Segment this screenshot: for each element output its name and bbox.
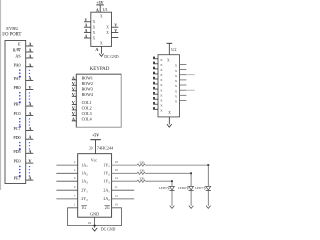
pin PE7 of EVBU I/O port with wire stub and net flag bbox=[26, 179, 34, 181]
keypad pin COL4 stub with net flag bbox=[72, 120, 77, 122]
svg-text:X: X bbox=[160, 98, 163, 102]
svg-text:KEYPAD: KEYPAD bbox=[90, 67, 110, 72]
LED LED6 bbox=[189, 186, 194, 190]
continuation dashes on EVBU stub column bbox=[29, 92, 30, 93]
svg-text:COL1: COL1 bbox=[82, 100, 92, 105]
continuation dashes on EVBU stub column bbox=[29, 142, 30, 143]
svg-text:330: 330 bbox=[139, 169, 144, 173]
U2 right pin stub with pin number X bbox=[180, 79, 187, 81]
pin PD5 of EVBU I/O port with wire stub and net flag bbox=[26, 152, 34, 154]
svg-text:V: V bbox=[85, 18, 88, 22]
wire 74HC244 left input stub bbox=[56, 189, 77, 191]
wire 74HC244 output to resistor R3 bbox=[112, 180, 138, 182]
svg-text:U1: U1 bbox=[103, 7, 108, 12]
junction dot at LED7 column bbox=[207, 164, 209, 166]
U2 left pin stub with net flag and pin number X bbox=[153, 83, 158, 85]
svg-text:PA0: PA0 bbox=[14, 62, 21, 67]
svg-text:AS: AS bbox=[15, 54, 21, 59]
svg-text:74HC244: 74HC244 bbox=[97, 146, 114, 151]
svg-text:1Y3: 1Y3 bbox=[103, 179, 110, 185]
svg-text:X: X bbox=[160, 88, 163, 92]
svg-text:A: A bbox=[29, 126, 32, 131]
svg-text:X: X bbox=[160, 68, 163, 72]
svg-text:2A2: 2A2 bbox=[103, 196, 110, 202]
svg-text:A: A bbox=[29, 135, 32, 140]
svg-text:A: A bbox=[29, 62, 32, 67]
svg-text:DC GND: DC GND bbox=[101, 228, 116, 232]
pin PA0 of EVBU I/O port with wire stub and net flag bbox=[26, 66, 34, 68]
U1 left pin stub with net flag and pin number X bbox=[84, 32, 91, 34]
svg-text:V: V bbox=[29, 85, 32, 90]
U1 third right pin stub bbox=[112, 36, 119, 38]
svg-text:X: X bbox=[175, 100, 178, 104]
svg-text:330: 330 bbox=[139, 177, 144, 181]
svg-text:1A1: 1A1 bbox=[81, 162, 88, 168]
svg-text:V: V bbox=[72, 100, 75, 105]
U2 left pin stub with net flag and pin number X bbox=[153, 63, 158, 65]
svg-text:X: X bbox=[93, 31, 96, 35]
pin PB0 of EVBU I/O port with wire stub and net flag bbox=[26, 88, 34, 90]
svg-text:1A2: 1A2 bbox=[81, 171, 88, 177]
svg-text:X: X bbox=[175, 79, 178, 83]
wire extension from U2 right pin bbox=[186, 74, 194, 76]
junction dot at LED6 column bbox=[190, 172, 192, 174]
IC U1 body bbox=[91, 12, 112, 46]
pin PB7 of EVBU I/O port with wire stub and net flag bbox=[26, 105, 34, 107]
pin PA7 of EVBU I/O port with wire stub and net flag bbox=[26, 79, 34, 81]
svg-text:A: A bbox=[85, 29, 88, 33]
svg-text:E: E bbox=[18, 42, 21, 47]
svg-text:+5V: +5V bbox=[96, 0, 103, 5]
svg-text:X: X bbox=[160, 58, 163, 62]
svg-text:X: X bbox=[160, 78, 163, 82]
svg-text:X: X bbox=[175, 84, 178, 88]
svg-text:V: V bbox=[114, 29, 117, 33]
svg-text:X: X bbox=[160, 109, 163, 113]
wire 74HC244 left input stub bbox=[56, 180, 77, 182]
svg-text:Vcc: Vcc bbox=[91, 157, 98, 162]
ground arrow under LED6 bbox=[189, 206, 194, 209]
svg-text:2: 2 bbox=[74, 160, 76, 164]
U2 left pin stub with net flag and pin number X bbox=[153, 108, 158, 110]
svg-text:V: V bbox=[114, 24, 117, 28]
pin R/W of EVBU I/O port with wire stub and net flag bbox=[26, 51, 34, 53]
svg-text:1: 1 bbox=[74, 203, 76, 207]
svg-text:6: 6 bbox=[74, 176, 76, 180]
U2 left pin stub with net flag and pin number X bbox=[153, 103, 158, 105]
buffer U3 74HC244 body bbox=[78, 154, 112, 218]
svg-text:A: A bbox=[29, 48, 32, 53]
keypad pin ROW1 stub with net flag bbox=[72, 79, 77, 81]
wire 74HC244 GND pin 10 down bbox=[94, 217, 96, 228]
svg-text:I/O PORT: I/O PORT bbox=[2, 33, 21, 38]
keypad pin ROW3 stub with net flag bbox=[72, 90, 77, 92]
pin E of EVBU I/O port with wire stub and net flag bbox=[26, 45, 34, 47]
DC GND power symbol under 74HC244 bbox=[92, 228, 97, 231]
wire +5V to 74HC244 Vcc pin 20 bbox=[94, 140, 96, 154]
svg-text:X: X bbox=[160, 83, 163, 87]
junction dot at ground node bbox=[94, 225, 96, 227]
svg-text:X: X bbox=[168, 111, 171, 115]
connector J1 EVBU I/O PORT body bbox=[5, 41, 26, 184]
wire U2 bottom pin to ground bbox=[168, 117, 170, 125]
svg-text:X: X bbox=[160, 104, 163, 108]
wire LED6 cathode to ground bbox=[190, 191, 192, 206]
svg-text:LED7: LED7 bbox=[195, 186, 203, 190]
svg-text:X: X bbox=[106, 31, 109, 35]
keypad pin ROW2 stub with net flag bbox=[72, 84, 77, 86]
continuation dots inside EVBU connector bbox=[19, 142, 21, 144]
wire U1 bottom pin to DC GND bbox=[100, 46, 102, 53]
ground arrow under LED5 bbox=[170, 206, 175, 209]
svg-text:2G: 2G bbox=[105, 205, 110, 210]
svg-text:14: 14 bbox=[115, 176, 119, 180]
svg-text:9: 9 bbox=[74, 185, 76, 189]
page border line bbox=[0, 0, 2, 190]
wire 74HC244 left input stub bbox=[56, 172, 77, 174]
svg-text:A: A bbox=[95, 47, 98, 52]
svg-text:A: A bbox=[96, 7, 99, 12]
connector U2 body bbox=[158, 55, 180, 117]
svg-text:V: V bbox=[72, 111, 75, 116]
svg-text:1Y1: 1Y1 bbox=[103, 162, 110, 168]
svg-text:2Y2: 2Y2 bbox=[81, 196, 88, 202]
svg-text:EVBU: EVBU bbox=[6, 26, 19, 31]
svg-text:COL3: COL3 bbox=[82, 111, 92, 116]
svg-text:11: 11 bbox=[115, 185, 118, 189]
svg-text:ROW3: ROW3 bbox=[82, 87, 93, 92]
svg-text:GND: GND bbox=[90, 212, 99, 217]
svg-text:V: V bbox=[72, 81, 75, 86]
wire resistor R1 to LED7 anode bbox=[145, 164, 208, 166]
U2 right pin stub with pin number X bbox=[180, 69, 187, 71]
wire 74HC244 2A input stub bbox=[112, 198, 135, 200]
U1 left pin stub with net flag and pin number X bbox=[84, 21, 91, 23]
svg-text:PC0: PC0 bbox=[14, 111, 21, 116]
resistor R3 330 ohm bbox=[137, 180, 145, 182]
svg-text:A: A bbox=[85, 35, 88, 39]
wire resistor R3 to LED5 anode bbox=[145, 180, 172, 182]
junction dot at LED5 column bbox=[171, 180, 173, 182]
LED LED7 bbox=[206, 186, 211, 190]
svg-text:X: X bbox=[93, 36, 96, 40]
svg-text:V: V bbox=[29, 159, 32, 164]
U2 left pin stub with net flag and pin number X bbox=[153, 78, 158, 80]
wire 1G enable to ground bbox=[68, 208, 95, 226]
svg-text:V: V bbox=[72, 105, 75, 110]
svg-text:A: A bbox=[72, 116, 75, 121]
keypad pin COL1 stub with net flag bbox=[72, 103, 77, 105]
resistor R1 330 ohm bbox=[137, 164, 145, 166]
svg-text:COL2: COL2 bbox=[82, 106, 92, 111]
keypad pin COL2 stub with net flag bbox=[72, 109, 77, 111]
wire resistor R2 to LED6 anode bbox=[145, 172, 191, 174]
pin AS of EVBU I/O port with wire stub and net flag bbox=[26, 57, 34, 59]
wire 74HC244 left input stub bbox=[56, 164, 77, 166]
continuation dots inside EVBU connector bbox=[19, 166, 21, 168]
svg-text:+5V: +5V bbox=[92, 132, 99, 137]
svg-text:PD0: PD0 bbox=[13, 135, 20, 140]
wire 74HC244 left input stub bbox=[56, 198, 77, 200]
svg-text:A: A bbox=[72, 75, 75, 80]
svg-text:X: X bbox=[175, 74, 178, 78]
U1 right pin stub with net flag and pin number X bbox=[112, 26, 119, 28]
svg-text:X: X bbox=[100, 15, 103, 19]
svg-text:U2: U2 bbox=[171, 47, 176, 52]
LED LED5 bbox=[170, 186, 175, 190]
svg-text:ROW1: ROW1 bbox=[82, 76, 93, 81]
svg-text:2Y1: 2Y1 bbox=[81, 188, 88, 194]
svg-text:X: X bbox=[93, 26, 96, 30]
pin PD0 of EVBU I/O port with wire stub and net flag bbox=[26, 138, 34, 140]
svg-text:4: 4 bbox=[74, 168, 76, 172]
svg-text:A: A bbox=[29, 42, 32, 47]
svg-text:330: 330 bbox=[139, 160, 144, 164]
U2 right pin stub with pin number X bbox=[180, 63, 187, 65]
U2 left pin stub with net flag and pin number X bbox=[153, 68, 158, 70]
svg-text:PB0: PB0 bbox=[14, 85, 21, 90]
svg-text:A: A bbox=[29, 149, 32, 154]
svg-text:X: X bbox=[93, 20, 96, 24]
svg-text:LED6: LED6 bbox=[178, 186, 186, 190]
svg-text:16: 16 bbox=[115, 168, 119, 172]
continuation dashes on EVBU stub column bbox=[29, 118, 30, 119]
svg-text:13: 13 bbox=[115, 194, 119, 198]
wire LED5 anode drop bbox=[171, 181, 173, 186]
svg-text:X: X bbox=[167, 59, 170, 63]
svg-text:1G: 1G bbox=[81, 205, 86, 210]
svg-text:X: X bbox=[175, 89, 178, 93]
U2 right pin stub with pin number X bbox=[180, 100, 187, 102]
svg-text:18: 18 bbox=[115, 160, 119, 164]
keypad pin ROW4 stub with net flag bbox=[72, 95, 77, 97]
svg-text:X: X bbox=[160, 73, 163, 77]
svg-text:X: X bbox=[175, 69, 178, 73]
svg-text:A: A bbox=[29, 111, 32, 116]
U2 right pin stub with pin number X bbox=[180, 94, 187, 96]
wire 74HC244 output to resistor R1 bbox=[112, 164, 138, 166]
resistor R2 330 ohm bbox=[137, 172, 145, 174]
svg-text:1Y2: 1Y2 bbox=[103, 171, 110, 177]
continuation dots inside EVBU connector bbox=[19, 69, 21, 71]
svg-text:V: V bbox=[72, 86, 75, 91]
svg-text:X: X bbox=[106, 26, 109, 30]
continuation dashes on EVBU stub column bbox=[29, 70, 30, 71]
svg-text:DC GND: DC GND bbox=[104, 55, 119, 59]
svg-text:A: A bbox=[29, 54, 32, 59]
svg-text:ROW4: ROW4 bbox=[82, 92, 93, 97]
svg-text:PE0: PE0 bbox=[14, 159, 21, 164]
wire extension from U2 right pin bbox=[186, 89, 194, 91]
svg-text:19: 19 bbox=[115, 203, 119, 207]
U2 left pin stub with net flag and pin number X bbox=[153, 73, 158, 75]
svg-text:X: X bbox=[175, 95, 178, 99]
svg-text:X: X bbox=[160, 93, 163, 97]
U2 left pin stub with net flag and pin number X bbox=[153, 58, 158, 60]
wire 74HC244 2A input stub bbox=[112, 189, 135, 191]
U2 right pin stub with pin number X bbox=[180, 89, 187, 91]
U1 right pin stub with net flag and pin number X bbox=[112, 32, 119, 34]
svg-text:20: 20 bbox=[89, 147, 93, 151]
svg-text:ROW2: ROW2 bbox=[82, 81, 93, 86]
U2 left pin stub with net flag and pin number X bbox=[153, 88, 158, 90]
wire +5V bar to U2 top pin bbox=[168, 43, 170, 54]
svg-text:X: X bbox=[175, 64, 178, 68]
DC GND power symbol under U1 bbox=[99, 54, 103, 57]
U1 left pin stub with net flag and pin number X bbox=[84, 37, 91, 39]
ground arrow under U2 bbox=[167, 124, 172, 127]
svg-text:A: A bbox=[85, 24, 88, 28]
pin PC0 of EVBU I/O port with wire stub and net flag bbox=[26, 114, 34, 116]
+5V bar above connector U2 bbox=[167, 42, 173, 44]
U2 left pin stub with net flag and pin number X bbox=[153, 98, 158, 100]
ground arrow under LED7 bbox=[206, 206, 211, 209]
continuation dots inside EVBU connector bbox=[19, 92, 21, 94]
svg-text:7: 7 bbox=[74, 194, 76, 198]
pin PE0 of EVBU I/O port with wire stub and net flag bbox=[26, 162, 34, 164]
svg-text:LED5: LED5 bbox=[159, 186, 167, 190]
wire LED5 cathode to ground bbox=[171, 191, 173, 206]
svg-text:COL4: COL4 bbox=[82, 117, 92, 122]
svg-text:2A1: 2A1 bbox=[103, 188, 110, 194]
U2 right pin stub with pin number X bbox=[180, 74, 187, 76]
U2 right pin stub with pin number X bbox=[180, 84, 187, 86]
wire +5V to U1 top pin bbox=[99, 5, 101, 12]
svg-text:X: X bbox=[100, 41, 103, 45]
continuation dashes on EVBU stub column bbox=[29, 166, 30, 167]
svg-text:10: 10 bbox=[88, 221, 92, 225]
svg-text:V: V bbox=[72, 92, 75, 97]
pin PC7 of EVBU I/O port with wire stub and net flag bbox=[26, 130, 34, 132]
wire LED7 anode drop bbox=[207, 165, 209, 186]
wire 2G enable to ground bbox=[95, 208, 122, 226]
keypad pin COL3 stub with net flag bbox=[72, 114, 77, 116]
wire 74HC244 output to resistor R2 bbox=[112, 172, 138, 174]
keypad body bbox=[76, 74, 121, 127]
wire LED7 cathode to ground bbox=[207, 191, 209, 206]
continuation dots inside EVBU connector bbox=[19, 118, 21, 120]
svg-text:X: X bbox=[160, 63, 163, 67]
wire LED6 anode drop bbox=[190, 173, 192, 186]
U1 left pin stub with net flag and pin number X bbox=[84, 26, 91, 28]
svg-text:1A3: 1A3 bbox=[81, 179, 88, 185]
U2 left pin stub with net flag and pin number X bbox=[153, 93, 158, 95]
